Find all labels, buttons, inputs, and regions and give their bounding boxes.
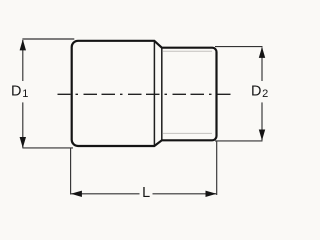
svg-text:1: 1	[22, 88, 28, 100]
svg-text:D: D	[11, 84, 21, 100]
svg-text:L: L	[142, 185, 150, 201]
svg-text:D: D	[251, 84, 261, 100]
svg-text:2: 2	[262, 88, 268, 100]
